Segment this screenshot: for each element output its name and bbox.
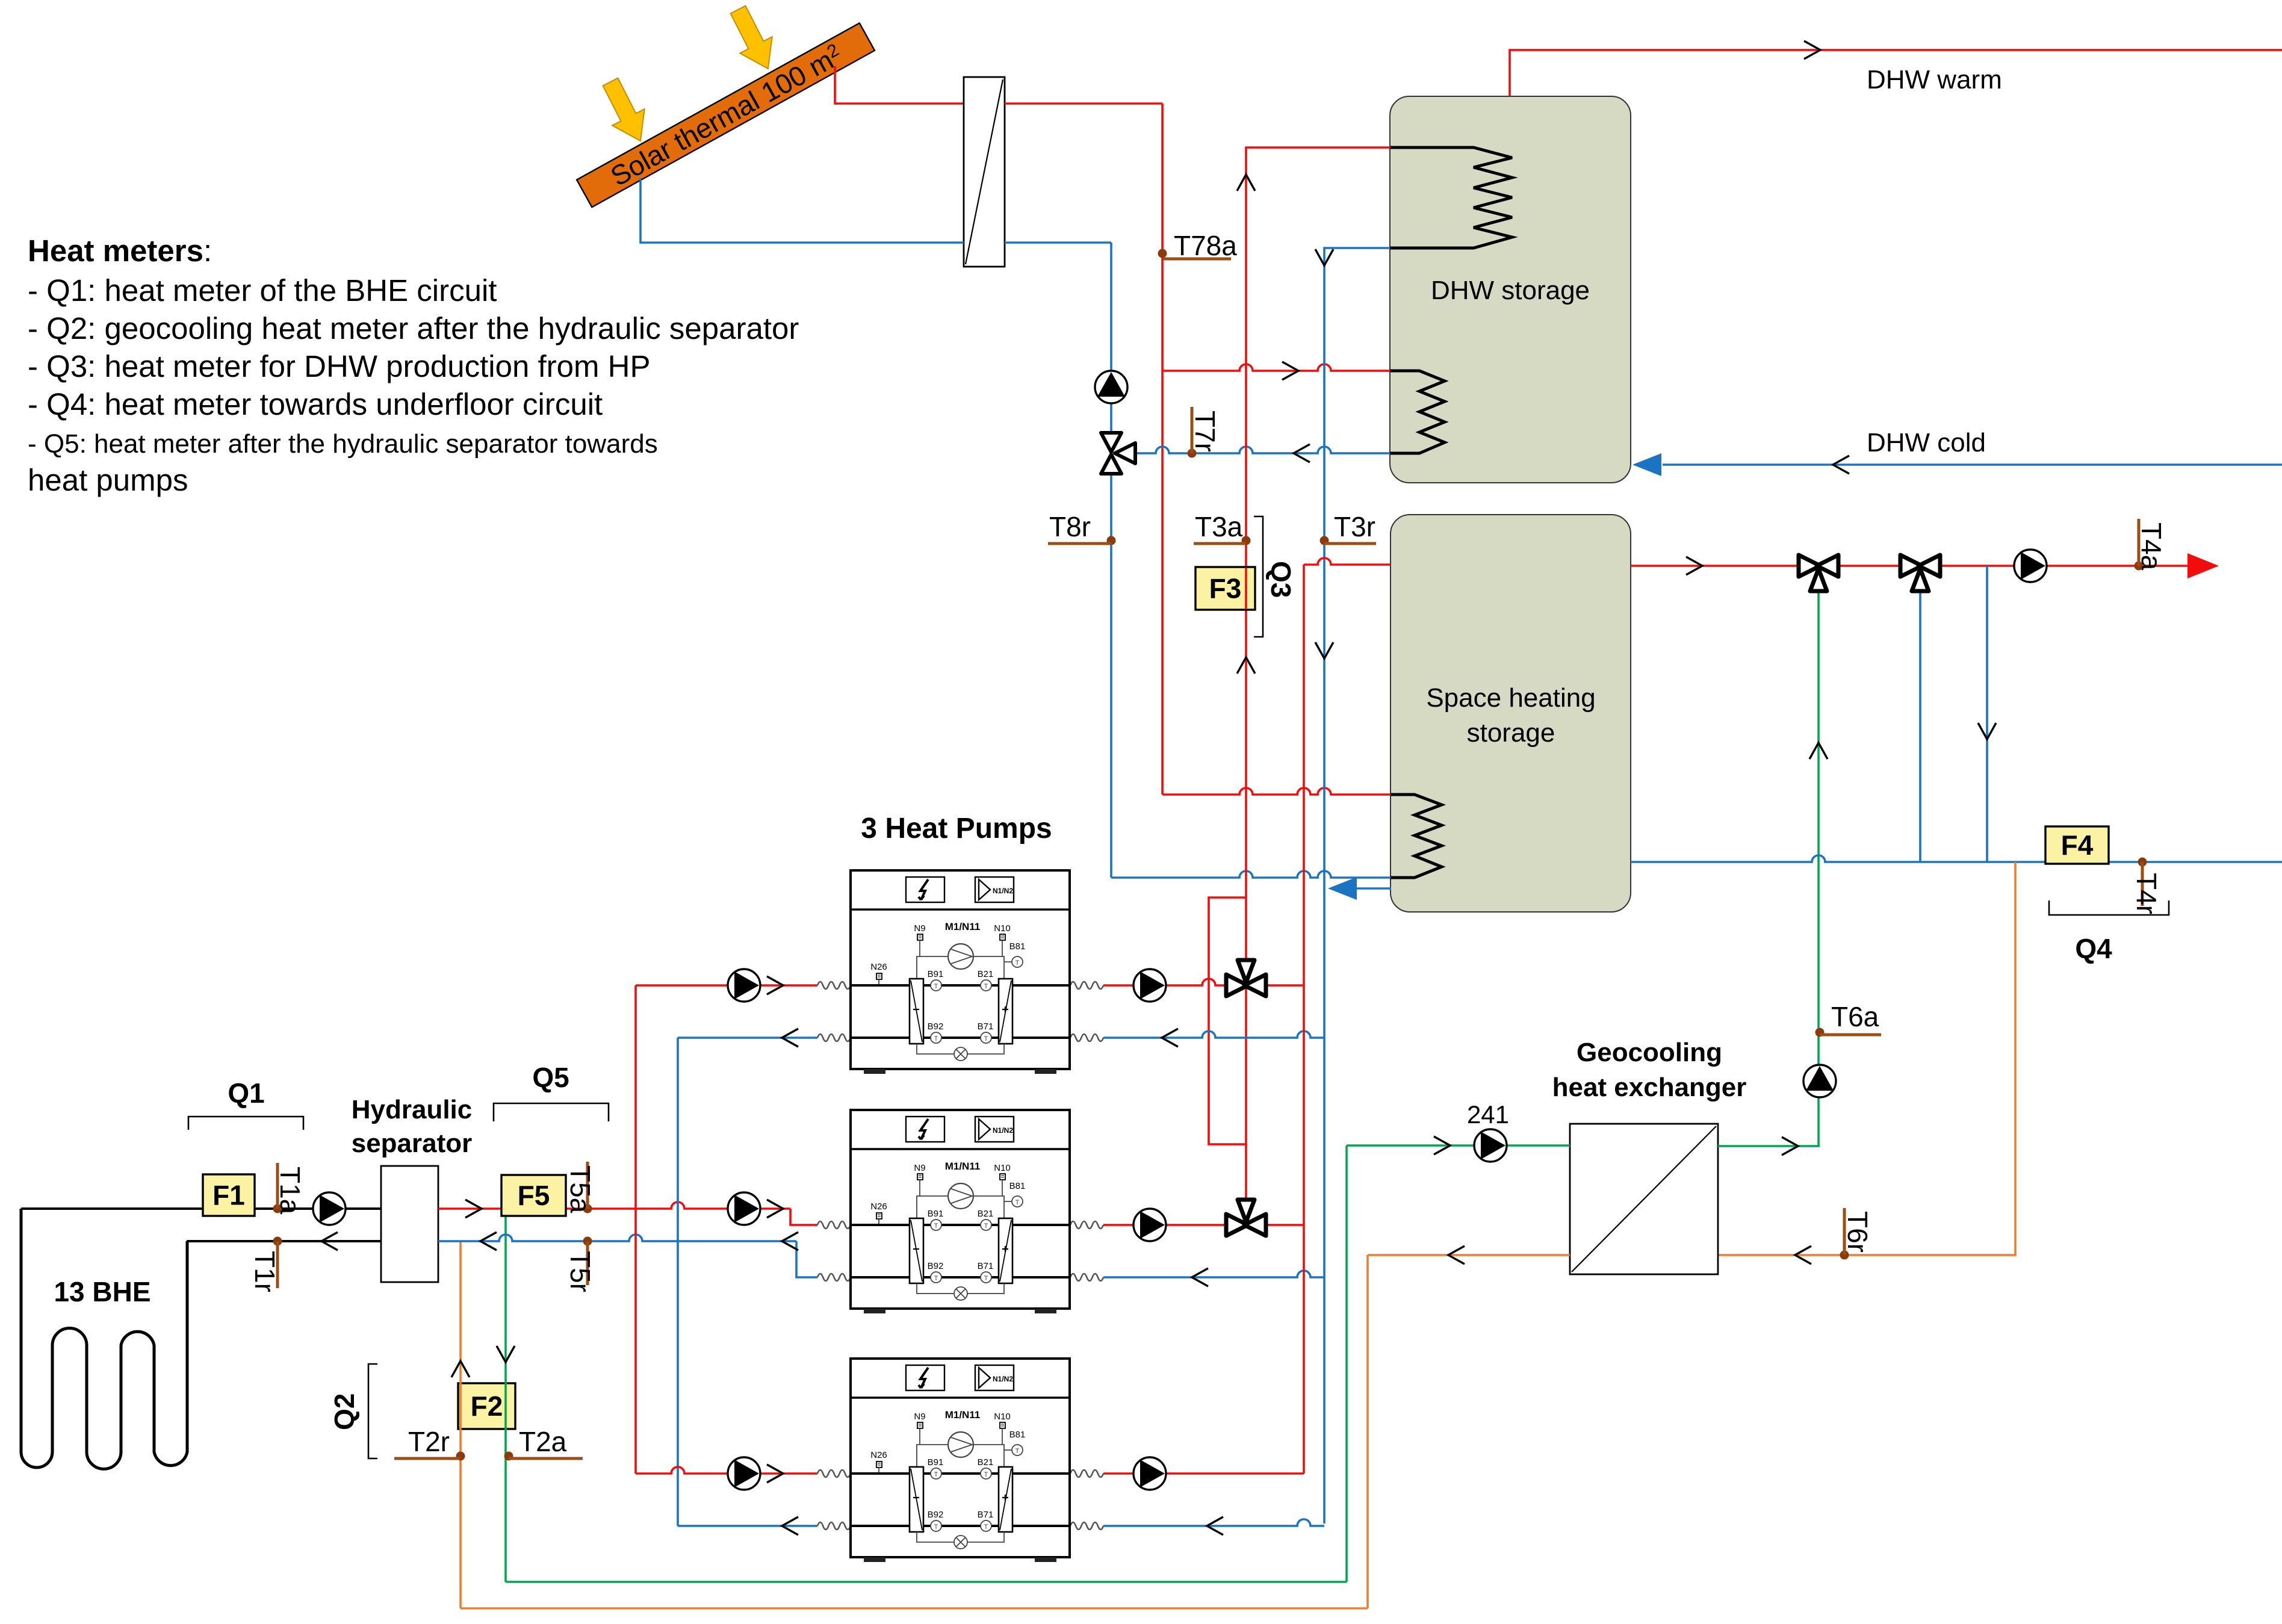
- svg-text:T5a: T5a: [565, 1165, 596, 1213]
- wire: main red supply separator to HP2: [438, 1200, 817, 1225]
- wire: green into geocooling HX: [1347, 1136, 1570, 1154]
- sensor T4r: [2131, 858, 2162, 915]
- svg-text:F3: F3: [1209, 573, 1242, 604]
- svg-text:N10: N10: [994, 1163, 1011, 1173]
- svg-text:T: T: [934, 1035, 938, 1043]
- svg-text:N9: N9: [914, 923, 925, 934]
- svg-text:B21: B21: [978, 1209, 994, 1219]
- wire: BHE return black: [187, 1232, 381, 1250]
- svg-text:T: T: [934, 983, 938, 990]
- pump HP2 load: [1133, 1209, 1166, 1241]
- wire: red riser to tank (HP hot): [1303, 565, 1305, 1474]
- flex connector left: [817, 1470, 851, 1477]
- wire: HP2 load blue: [1103, 1268, 1324, 1286]
- wire: red riser T78a (HX to space tank coil): [1161, 104, 1164, 795]
- DHW storage tank: [1390, 96, 1631, 483]
- wire: HP3 left red: [636, 1464, 817, 1483]
- svg-text:T: T: [934, 1471, 938, 1478]
- svg-text:3 Heat Pumps: 3 Heat Pumps: [861, 813, 1052, 845]
- svg-text:B21: B21: [978, 1457, 994, 1467]
- svg-text:heat exchanger: heat exchanger: [1552, 1073, 1747, 1102]
- svg-text:F2: F2: [471, 1390, 503, 1422]
- svg-text:Space heating: Space heating: [1426, 683, 1595, 713]
- pump HP3 source: [728, 1457, 760, 1490]
- svg-text:- Q4: heat meter towards under: - Q4: heat meter towards underfloor circ…: [28, 387, 603, 421]
- pump underfloor: [2014, 550, 2047, 582]
- heat pump unit 3: [851, 1359, 1070, 1562]
- svg-text:T: T: [984, 1523, 988, 1531]
- label 3 heat pumps: [861, 813, 1052, 845]
- svg-text:T: T: [1015, 1199, 1020, 1206]
- sensor T6a: [1815, 1001, 1882, 1037]
- flex connector left: [817, 1221, 851, 1229]
- wire: red riser to DHW upper coil: [1237, 147, 1391, 1210]
- sensor T6r: [1840, 1208, 1874, 1260]
- svg-text:B81: B81: [1009, 941, 1026, 952]
- wire: green bottom run: [506, 1581, 1347, 1583]
- valve HP1 3-way: [1226, 960, 1266, 996]
- sensor T5a: [565, 1162, 596, 1213]
- wire: HP1 left blue: [678, 1029, 817, 1047]
- solar thermal collector: [577, 23, 875, 208]
- svg-text:T: T: [984, 1275, 988, 1282]
- sensor T78a: [1158, 230, 1238, 261]
- svg-text:storage: storage: [1467, 718, 1555, 748]
- F4 flow meter: [2045, 826, 2109, 864]
- svg-text:Q5: Q5: [532, 1062, 569, 1093]
- svg-text:B21: B21: [978, 969, 994, 979]
- svg-text:241: 241: [1467, 1100, 1509, 1129]
- wire: blue drop T8r: [1110, 243, 1112, 878]
- flex connector right: [1070, 1034, 1103, 1041]
- F1 flow meter: [203, 1174, 255, 1216]
- svg-text:F5: F5: [518, 1180, 550, 1211]
- wire: green riser right: [1345, 1145, 1348, 1582]
- label hydraulic separator: [352, 1095, 473, 1158]
- wire: red from HP riser into tank top: [1304, 558, 1391, 565]
- wire: HP3 load red: [1103, 1472, 1304, 1475]
- svg-text:T: T: [984, 1471, 988, 1478]
- svg-text:B81: B81: [1009, 1181, 1026, 1191]
- space heating coil: [1391, 795, 1442, 878]
- wire: underfloor return: [1631, 855, 2282, 862]
- label DHW cold: [1867, 428, 1986, 457]
- svg-text:Q1: Q1: [228, 1077, 264, 1109]
- svg-text:T1r: T1r: [249, 1251, 281, 1292]
- wire: main blue return HP2 to separator: [438, 1232, 817, 1277]
- bracket Q2: [329, 1364, 377, 1458]
- svg-text:heat pumps: heat pumps: [28, 463, 188, 497]
- wire: green geocooling supply drop: [497, 1209, 515, 1582]
- svg-text:N1/N2: N1/N2: [993, 887, 1013, 895]
- svg-text:B92: B92: [928, 1261, 944, 1271]
- svg-text:B91: B91: [928, 1457, 944, 1467]
- flex connector right: [1070, 1274, 1103, 1281]
- wire: red to space heating coil: [1162, 788, 1391, 795]
- wire: blue return from space heating coil: [1111, 871, 1391, 878]
- wire: BHE supply black: [21, 1207, 381, 1210]
- svg-text:N26: N26: [870, 1201, 887, 1212]
- DHW upper coil: [1390, 147, 1512, 248]
- sensor T4a: [2135, 519, 2168, 571]
- svg-text:T1a: T1a: [274, 1167, 306, 1215]
- svg-text:T: T: [984, 1035, 988, 1043]
- wire: orange drop to geocooling: [1718, 862, 2015, 1264]
- label 13 BHE: [54, 1276, 150, 1307]
- svg-text:- Q1: heat meter of the BHE ci: - Q1: heat meter of the BHE circuit: [28, 273, 497, 308]
- svg-text:N9: N9: [914, 1163, 925, 1173]
- svg-text:N9: N9: [914, 1412, 925, 1422]
- sensor T1r: [249, 1237, 282, 1293]
- pump BHE circuit: [313, 1192, 346, 1225]
- svg-text:T2a: T2a: [519, 1426, 567, 1457]
- DHW lower coil: [1390, 371, 1445, 453]
- svg-text:T8r: T8r: [1049, 511, 1091, 542]
- svg-text:DHW storage: DHW storage: [1431, 276, 1590, 305]
- wire: blue drop valve2: [1919, 592, 1921, 862]
- svg-text:N10: N10: [994, 1412, 1011, 1422]
- svg-text:T: T: [984, 1223, 988, 1230]
- wire: HP1 left red: [636, 976, 817, 994]
- flex connector right: [1070, 1221, 1103, 1229]
- wire: orange out of geocooling HX: [1368, 1246, 1570, 1264]
- F5 flow meter: [501, 1175, 566, 1216]
- svg-text:DHW cold: DHW cold: [1867, 428, 1986, 457]
- svg-text:T6a: T6a: [1831, 1001, 1879, 1032]
- wire: orange geocooling return riser: [451, 1241, 470, 1608]
- svg-text:M1/N11: M1/N11: [945, 1409, 981, 1421]
- svg-text:Heat meters:: Heat meters:: [28, 234, 212, 268]
- valve solar 3-way: [1101, 433, 1135, 474]
- svg-text:T7r: T7r: [1189, 411, 1221, 452]
- solar heat exchanger: [964, 77, 1005, 267]
- svg-text:N10: N10: [994, 923, 1011, 934]
- sensor T2a: [504, 1426, 583, 1461]
- bracket Q1: [188, 1077, 303, 1130]
- svg-text:T78a: T78a: [1174, 230, 1237, 261]
- svg-text:T: T: [934, 1523, 938, 1531]
- svg-text:- Q5: heat meter after the hyd: - Q5: heat meter after the hydraulic sep…: [28, 429, 658, 459]
- sensor T8r: [1048, 511, 1116, 545]
- svg-text:B92: B92: [928, 1510, 944, 1520]
- svg-text:T3a: T3a: [1195, 511, 1243, 542]
- svg-text:T4a: T4a: [2136, 522, 2167, 571]
- svg-text:Q3: Q3: [1265, 561, 1297, 598]
- wire: red bypass staple: [1209, 897, 1246, 1144]
- svg-text:M1/N11: M1/N11: [945, 1161, 981, 1172]
- svg-text:T: T: [1015, 1448, 1020, 1455]
- sensor T5r: [565, 1237, 596, 1293]
- sensor T7r: [1188, 407, 1221, 458]
- wire: HP3 left blue: [678, 1517, 817, 1535]
- svg-text:- Q3: heat meter for DHW produ: - Q3: heat meter for DHW production from…: [28, 349, 651, 383]
- valve underfloor 1: [1799, 555, 1838, 591]
- geocooling heat exchanger: [1570, 1124, 1718, 1274]
- BHE loop 13 BHE: [21, 1209, 187, 1469]
- pump HP1 load: [1133, 969, 1166, 1002]
- wire: T7r line (DHW lower coil to solar valve): [1123, 444, 1391, 462]
- sensor T3r: [1320, 511, 1377, 545]
- sun arrow 1: [594, 73, 656, 149]
- space heating storage tank: [1391, 515, 1631, 912]
- svg-text:Q2: Q2: [329, 1393, 360, 1430]
- flex connector left: [817, 1274, 851, 1281]
- pump 241: [1467, 1100, 1509, 1162]
- pump solar circuit: [1095, 371, 1127, 403]
- flex connector right: [1070, 1470, 1103, 1477]
- pump HP1 source: [728, 969, 760, 1002]
- svg-text:T: T: [934, 1275, 938, 1282]
- svg-text:Q4: Q4: [2075, 933, 2112, 964]
- wire: blue arrow into T3r drop: [1328, 877, 1391, 900]
- svg-text:F4: F4: [2061, 829, 2094, 861]
- svg-text:T2r: T2r: [408, 1426, 450, 1457]
- svg-text:B71: B71: [978, 1510, 994, 1520]
- wire: solar cold HX to blue drop: [1005, 241, 1111, 244]
- wire: red branch to DHW lower coil: [1162, 362, 1391, 380]
- wire: blue drop bypass: [1978, 566, 1996, 862]
- wire: underfloor supply: [1631, 557, 2198, 575]
- svg-text:T5r: T5r: [565, 1251, 596, 1292]
- svg-text:N26: N26: [870, 962, 887, 972]
- sensor T3a: [1194, 511, 1251, 545]
- svg-text:T: T: [984, 983, 988, 990]
- flex connector left: [817, 1522, 851, 1529]
- flex connector right: [1070, 1522, 1103, 1529]
- svg-text:Geocooling: Geocooling: [1577, 1038, 1722, 1067]
- wire: solar hot HX to red riser: [1005, 102, 1162, 105]
- svg-text:B81: B81: [1009, 1430, 1026, 1440]
- legend text: heat meters list: [28, 234, 799, 497]
- wire: HP1 load blue: [1103, 1029, 1324, 1047]
- wire: orange bottom run: [460, 1607, 1368, 1610]
- svg-text:M1/N11: M1/N11: [945, 921, 981, 932]
- svg-text:B91: B91: [928, 969, 944, 979]
- F3 flow meter: [1195, 567, 1255, 610]
- svg-text:B92: B92: [928, 1021, 944, 1032]
- pump HP3 load: [1133, 1457, 1166, 1490]
- hydraulic separator: [381, 1166, 438, 1282]
- bracket Q5: [494, 1062, 609, 1121]
- svg-text:F1: F1: [212, 1180, 245, 1211]
- arrowhead underfloor supply: [2187, 553, 2219, 578]
- sun arrow 2: [722, 1, 784, 76]
- wire: HP1 load red: [1103, 979, 1304, 985]
- flex connector left: [817, 1034, 851, 1041]
- wire: DHW warm outlet: [1510, 41, 2282, 96]
- F2 flow meter: [458, 1383, 515, 1429]
- svg-text:T3r: T3r: [1334, 511, 1375, 542]
- wire: HP2 load red: [1103, 1224, 1304, 1226]
- svg-text:B71: B71: [978, 1261, 994, 1271]
- svg-text:13 BHE: 13 BHE: [54, 1276, 150, 1307]
- wire: DHW cold inlet: [1632, 453, 2282, 476]
- pump HP2 source: [728, 1192, 760, 1225]
- svg-text:T6r: T6r: [1842, 1211, 1873, 1253]
- wire: blue distribution riser: [677, 1038, 679, 1526]
- svg-text:separator: separator: [352, 1129, 473, 1158]
- sensor T2r: [394, 1426, 465, 1461]
- bracket Q3: [1254, 516, 1297, 637]
- wire: solar cold return (panel to HX): [640, 178, 964, 243]
- heat pump unit 1: [851, 870, 1070, 1074]
- bracket Q4: [2049, 900, 2169, 964]
- wire: red distribution riser: [634, 985, 637, 1474]
- heat pump unit 2: [851, 1110, 1070, 1313]
- svg-text:N26: N26: [870, 1450, 887, 1460]
- wire: orange riser right: [1366, 1255, 1369, 1608]
- sensor T1a: [273, 1163, 306, 1215]
- wire: green riser geocooling to supply: [1809, 592, 1828, 1146]
- svg-text:Hydraulic: Hydraulic: [352, 1095, 473, 1124]
- svg-text:N1/N2: N1/N2: [993, 1126, 1013, 1135]
- svg-text:DHW warm: DHW warm: [1867, 65, 2002, 95]
- wire: solar hot supply (panel to HX): [835, 66, 964, 104]
- svg-text:T4r: T4r: [2131, 873, 2162, 914]
- valve HP2 3-way: [1226, 1200, 1266, 1236]
- svg-text:T: T: [1015, 959, 1020, 967]
- flex connector right: [1070, 982, 1103, 989]
- wire: HP3 load blue: [1103, 1517, 1324, 1535]
- svg-text:T: T: [934, 1223, 938, 1230]
- label DHW warm: [1867, 65, 2002, 95]
- wire: blue drop from DHW upper coil: [1315, 248, 1390, 1523]
- wire: green out of geocooling HX: [1718, 1137, 1820, 1155]
- svg-text:B91: B91: [928, 1209, 944, 1219]
- svg-text:- Q2: geocooling heat meter af: - Q2: geocooling heat meter after the hy…: [28, 311, 799, 346]
- label geocooling: [1552, 1038, 1747, 1102]
- valve underfloor 2: [1900, 555, 1940, 591]
- svg-text:N1/N2: N1/N2: [993, 1375, 1013, 1383]
- svg-text:B71: B71: [978, 1021, 994, 1032]
- pump geocooling riser: [1803, 1065, 1836, 1097]
- flex connector left: [817, 982, 851, 989]
